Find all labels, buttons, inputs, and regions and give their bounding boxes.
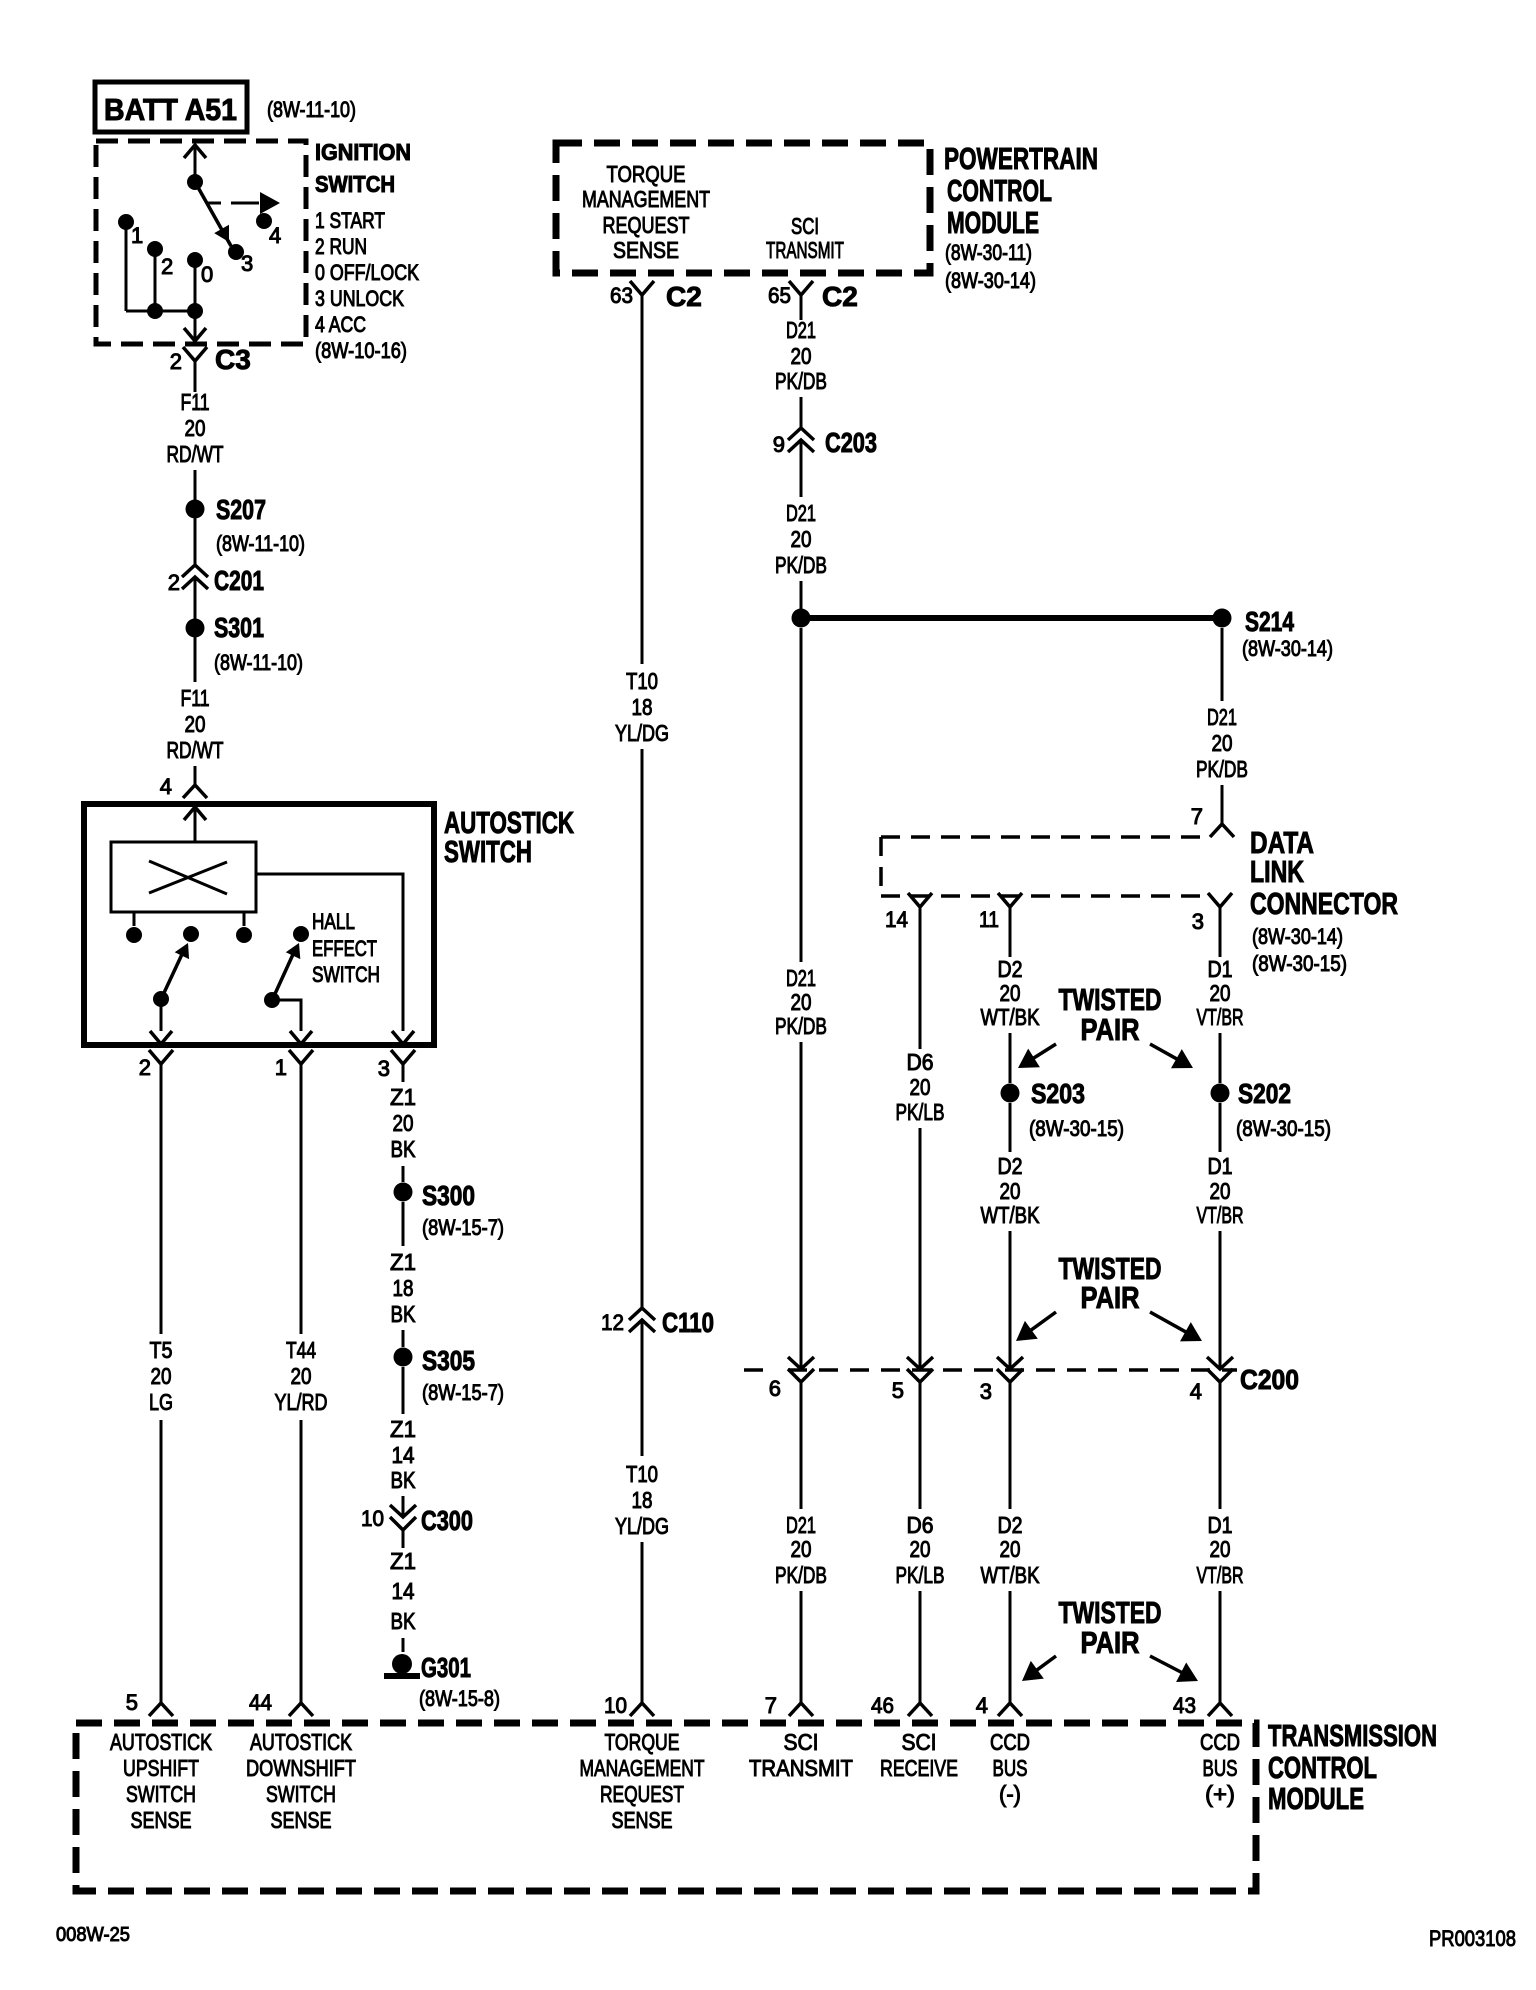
svg-text:20: 20 <box>1210 980 1231 1006</box>
connector pin 2 <box>149 1050 173 1064</box>
entry arrow from BATT <box>184 145 206 158</box>
wire from contact 2 <box>154 249 157 311</box>
svg-text:PK/DB: PK/DB <box>775 368 827 394</box>
svg-text:(8W-30-14): (8W-30-14) <box>945 268 1036 293</box>
svg-text:BK: BK <box>391 1301 417 1327</box>
data link connector box left <box>879 837 883 896</box>
svg-text:(8W-15-7): (8W-15-7) <box>422 1380 504 1405</box>
splice S203 <box>1001 1084 1020 1103</box>
svg-text:20: 20 <box>1210 1536 1231 1562</box>
wire <box>1009 1231 1012 1369</box>
svg-text:D1: D1 <box>1208 1153 1233 1179</box>
svg-text:C203: C203 <box>825 427 877 458</box>
svg-text:AUTOSTICK: AUTOSTICK <box>250 1729 353 1755</box>
svg-text:G301: G301 <box>421 1652 471 1683</box>
svg-text:20: 20 <box>1000 1178 1021 1204</box>
svg-text:D1: D1 <box>1208 1512 1233 1538</box>
twisted pair arrow left <box>1018 1044 1056 1068</box>
svg-text:0 OFF/LOCK: 0 OFF/LOCK <box>315 260 419 285</box>
wire <box>919 1128 922 1369</box>
svg-text:UPSHIFT: UPSHIFT <box>123 1755 199 1781</box>
wire to pin 1 <box>272 1000 301 1031</box>
splice S214 <box>1213 609 1232 628</box>
svg-text:Z1: Z1 <box>390 1548 416 1574</box>
wire T10 <box>641 317 644 664</box>
wire to pin 3 <box>256 874 403 1031</box>
svg-text:CONNECTOR: CONNECTOR <box>1250 886 1398 921</box>
exit arrow pin 2 <box>150 1031 172 1044</box>
svg-text:PAIR: PAIR <box>1081 1012 1140 1047</box>
svg-text:10: 10 <box>604 1693 627 1718</box>
X mark <box>149 861 227 894</box>
svg-text:SENSE: SENSE <box>271 1807 332 1833</box>
svg-text:(8W-15-8): (8W-15-8) <box>419 1686 500 1711</box>
svg-text:5: 5 <box>126 1690 138 1715</box>
svg-text:4: 4 <box>1190 1379 1202 1404</box>
wire <box>402 1367 405 1414</box>
wire <box>800 397 803 428</box>
svg-text:4: 4 <box>160 774 172 799</box>
svg-text:SENSE: SENSE <box>613 237 679 263</box>
svg-text:BUS: BUS <box>993 1755 1028 1781</box>
svg-text:RD/WT: RD/WT <box>167 737 224 763</box>
exit arrow to C3 <box>184 328 206 341</box>
svg-text:T10: T10 <box>626 1461 658 1487</box>
svg-text:7: 7 <box>765 1693 777 1718</box>
connector C2 pin 65 <box>789 281 813 295</box>
svg-text:PK/DB: PK/DB <box>1196 756 1248 782</box>
wire T44 <box>300 1064 303 1334</box>
svg-text:PK/DB: PK/DB <box>775 1562 827 1588</box>
svg-text:BUS: BUS <box>1203 1755 1238 1781</box>
svg-text:S301: S301 <box>214 612 264 643</box>
connector pin 1 <box>289 1050 313 1064</box>
svg-text:1: 1 <box>131 223 143 248</box>
svg-text:S202: S202 <box>1238 1078 1291 1109</box>
svg-text:12: 12 <box>601 1310 624 1335</box>
svg-text:3: 3 <box>980 1379 992 1404</box>
svg-text:0: 0 <box>201 262 213 287</box>
svg-text:D21: D21 <box>786 317 816 343</box>
data link connector box top <box>881 835 1206 839</box>
svg-text:MODULE: MODULE <box>947 205 1039 240</box>
exit arrow pin 1 <box>290 1031 312 1044</box>
svg-text:1: 1 <box>275 1055 287 1080</box>
connector pin 4 of autostick switch <box>183 785 207 798</box>
svg-text:Z1: Z1 <box>390 1084 416 1110</box>
svg-text:9: 9 <box>773 432 785 457</box>
svg-text:(+): (+) <box>1205 1781 1235 1807</box>
wire <box>1009 1591 1012 1703</box>
svg-text:SENSE: SENSE <box>131 1807 192 1833</box>
svg-text:14: 14 <box>392 1442 415 1468</box>
svg-text:18: 18 <box>393 1275 414 1301</box>
downshift switch pivot <box>264 992 280 1008</box>
contact 4 <box>256 213 272 229</box>
connector C110 pin 12 <box>629 1308 655 1356</box>
svg-text:20: 20 <box>291 1363 312 1389</box>
ignition switch box <box>96 141 306 344</box>
wire <box>160 1420 163 1703</box>
svg-text:D21: D21 <box>786 965 816 991</box>
svg-text:TRANSMISSION: TRANSMISSION <box>1268 1718 1437 1753</box>
svg-text:PR003108: PR003108 <box>1429 1926 1516 1951</box>
svg-text:2: 2 <box>161 254 173 279</box>
svg-text:S300: S300 <box>422 1180 475 1211</box>
connector C2 pin 63 <box>630 281 654 295</box>
splice S305 <box>394 1348 413 1367</box>
svg-text:REQUEST: REQUEST <box>603 212 690 238</box>
svg-text:SENSE: SENSE <box>612 1807 673 1833</box>
connector TCM pin 44 <box>289 1703 313 1716</box>
svg-text:11: 11 <box>979 907 999 932</box>
wire <box>194 470 197 565</box>
svg-text:3 UNLOCK: 3 UNLOCK <box>315 286 404 311</box>
transmission control module box <box>76 1723 1256 1891</box>
powertrain control module box <box>556 143 930 273</box>
svg-text:20: 20 <box>910 1536 931 1562</box>
svg-text:65: 65 <box>768 283 791 308</box>
svg-text:F11: F11 <box>181 389 210 415</box>
wire <box>800 581 803 618</box>
svg-text:S305: S305 <box>422 1345 475 1376</box>
svg-text:(8W-11-10): (8W-11-10) <box>214 650 303 675</box>
svg-text:POWERTRAIN: POWERTRAIN <box>944 141 1098 176</box>
connector C200 pin 6 <box>788 1357 814 1382</box>
connector TCM pin 46 <box>908 1703 932 1716</box>
bus wire <box>126 310 195 313</box>
wire to pin 2 <box>160 999 163 1031</box>
svg-text:(8W-30-14): (8W-30-14) <box>1242 636 1333 661</box>
svg-text:1 START: 1 START <box>315 208 385 233</box>
svg-text:D2: D2 <box>998 1512 1023 1538</box>
svg-text:2: 2 <box>139 1055 151 1080</box>
wire Z1 <box>402 1064 405 1082</box>
rotation arrow <box>208 202 221 205</box>
svg-text:6: 6 <box>769 1376 781 1401</box>
svg-text:(8W-10-16): (8W-10-16) <box>315 338 407 363</box>
svg-text:(8W-11-10): (8W-11-10) <box>267 97 356 122</box>
svg-text:TRANSMIT: TRANSMIT <box>766 237 844 263</box>
twisted pair arrow right <box>1150 1312 1202 1341</box>
svg-text:20: 20 <box>910 1074 931 1100</box>
svg-text:BATT A51: BATT A51 <box>104 92 237 127</box>
wire <box>800 1591 803 1703</box>
svg-text:2: 2 <box>168 570 180 595</box>
svg-text:SWITCH: SWITCH <box>312 962 380 987</box>
connector TCM pin 43 <box>1208 1703 1232 1716</box>
svg-text:3: 3 <box>378 1056 390 1081</box>
svg-text:D6: D6 <box>907 1512 934 1538</box>
svg-text:T5: T5 <box>150 1337 173 1363</box>
wire <box>1219 1382 1222 1509</box>
wire <box>919 1382 922 1509</box>
svg-text:PAIR: PAIR <box>1081 1280 1140 1315</box>
wire <box>641 1542 644 1703</box>
wire <box>800 1382 803 1509</box>
wire to S214 <box>801 615 1222 621</box>
svg-text:LINK: LINK <box>1250 854 1304 889</box>
svg-text:20: 20 <box>185 415 206 441</box>
wire <box>1219 1033 1222 1083</box>
svg-text:D21: D21 <box>786 500 816 526</box>
connector TCM pin 4 <box>998 1703 1022 1716</box>
wire <box>1219 1591 1222 1703</box>
svg-text:BK: BK <box>391 1136 417 1162</box>
svg-text:2 RUN: 2 RUN <box>315 234 367 259</box>
svg-text:D2: D2 <box>998 1153 1023 1179</box>
svg-text:7: 7 <box>1191 804 1203 829</box>
entry arrow pin 4 <box>184 807 206 820</box>
wire <box>1009 1103 1012 1152</box>
svg-text:YL/RD: YL/RD <box>275 1389 328 1415</box>
svg-text:D21: D21 <box>1207 704 1237 730</box>
splice S207 <box>186 500 205 519</box>
svg-text:2: 2 <box>170 349 182 374</box>
svg-text:10: 10 <box>361 1506 384 1531</box>
connector TCM pin 7 <box>789 1703 813 1716</box>
svg-text:14: 14 <box>392 1578 415 1604</box>
svg-text:CONTROL: CONTROL <box>1268 1750 1377 1785</box>
contact 3 <box>228 244 244 260</box>
svg-text:20: 20 <box>1212 730 1233 756</box>
connector C300 pin 10 <box>390 1505 416 1530</box>
svg-text:PK/LB: PK/LB <box>896 1099 945 1125</box>
twisted pair arrow left <box>1022 1656 1056 1681</box>
wire D21 <box>800 317 803 320</box>
svg-text:CCD: CCD <box>1200 1729 1240 1755</box>
svg-text:C200: C200 <box>1240 1364 1299 1395</box>
connector C203 pin 9 <box>788 428 814 476</box>
wire <box>800 476 803 497</box>
svg-text:20: 20 <box>791 526 812 552</box>
svg-text:SCI: SCI <box>784 1729 819 1755</box>
svg-text:(8W-30-15): (8W-30-15) <box>1029 1116 1124 1141</box>
svg-text:MODULE: MODULE <box>1268 1781 1364 1816</box>
connector TCM pin 5 <box>149 1703 173 1716</box>
svg-text:3: 3 <box>241 251 253 276</box>
connector C201 pin 2 <box>182 565 208 613</box>
svg-text:20: 20 <box>791 989 812 1015</box>
svg-text:20: 20 <box>791 1536 812 1562</box>
contact 2 <box>147 241 163 257</box>
svg-text:D2: D2 <box>998 956 1023 982</box>
data link connector box bottom <box>881 894 1206 898</box>
svg-text:DOWNSHIFT: DOWNSHIFT <box>246 1755 356 1781</box>
connector C200 line <box>744 1368 766 1372</box>
twisted pair arrow right <box>1150 1656 1198 1682</box>
svg-text:RD/WT: RD/WT <box>167 441 224 467</box>
twisted pair arrow right <box>1150 1044 1193 1068</box>
wire <box>641 1356 644 1456</box>
svg-text:C110: C110 <box>662 1307 714 1338</box>
svg-text:CONTROL: CONTROL <box>947 173 1052 208</box>
svg-text:S214: S214 <box>1245 606 1294 637</box>
wire <box>1221 785 1224 824</box>
wire <box>800 628 803 962</box>
svg-text:C2: C2 <box>666 281 702 312</box>
svg-text:63: 63 <box>610 283 633 308</box>
svg-text:C300: C300 <box>421 1505 473 1536</box>
svg-text:BK: BK <box>391 1467 417 1493</box>
switch body <box>111 842 256 912</box>
ground G301 <box>392 1654 412 1674</box>
svg-text:SWITCH: SWITCH <box>315 171 395 197</box>
svg-text:LG: LG <box>149 1389 173 1415</box>
svg-text:WT/BK: WT/BK <box>981 1004 1041 1030</box>
svg-text:20: 20 <box>393 1110 414 1136</box>
splice S300 <box>394 1183 413 1202</box>
svg-text:008W-25: 008W-25 <box>56 1924 130 1946</box>
svg-text:SCI: SCI <box>902 1729 937 1755</box>
connector DLC pin 3 <box>1208 893 1232 907</box>
hall effect contact <box>293 926 309 942</box>
svg-text:20: 20 <box>1000 980 1021 1006</box>
svg-text:MANAGEMENT: MANAGEMENT <box>582 186 710 212</box>
connector C200 pin 3 <box>997 1357 1023 1382</box>
splice junction <box>792 609 811 628</box>
svg-text:T10: T10 <box>626 668 658 694</box>
svg-text:IGNITION: IGNITION <box>315 139 411 165</box>
svg-text:18: 18 <box>632 1487 653 1513</box>
wire <box>194 607 197 682</box>
svg-text:CCD: CCD <box>990 1729 1030 1755</box>
wire <box>641 749 644 1308</box>
svg-text:VT/BR: VT/BR <box>1197 1004 1244 1030</box>
wire <box>402 1202 405 1246</box>
svg-text:20: 20 <box>185 711 206 737</box>
svg-text:PAIR: PAIR <box>1081 1625 1140 1660</box>
svg-text:18: 18 <box>632 694 653 720</box>
svg-text:WT/BK: WT/BK <box>981 1562 1041 1588</box>
svg-text:SWITCH: SWITCH <box>126 1781 196 1807</box>
exit arrow pin 3 <box>392 1031 414 1044</box>
connector DLC pin 11 <box>998 893 1022 907</box>
svg-text:SWITCH: SWITCH <box>266 1781 336 1807</box>
wire <box>300 1420 303 1703</box>
battery feed box BATT A51 <box>95 82 247 132</box>
svg-text:4: 4 <box>269 223 281 248</box>
junction <box>187 303 203 319</box>
svg-text:C3: C3 <box>215 344 251 375</box>
wire <box>194 147 197 182</box>
wire T5 <box>160 1064 163 1334</box>
svg-text:YL/DG: YL/DG <box>615 720 669 746</box>
svg-text:WT/BK: WT/BK <box>981 1202 1041 1228</box>
wire D1 <box>1219 907 1222 957</box>
wire to autostick <box>194 766 197 785</box>
wire from contact 1 <box>125 222 128 311</box>
svg-text:TRANSMIT: TRANSMIT <box>749 1755 853 1781</box>
svg-text:HALL: HALL <box>312 909 355 934</box>
svg-text:(8W-30-14): (8W-30-14) <box>1252 924 1343 949</box>
wire D2 <box>1009 907 1012 957</box>
switch pivot <box>187 174 203 190</box>
svg-text:43: 43 <box>1173 1693 1196 1718</box>
wire <box>1009 1382 1012 1509</box>
wire <box>402 1638 405 1652</box>
svg-text:5: 5 <box>892 1378 904 1403</box>
svg-text:SCI: SCI <box>791 213 819 239</box>
wire <box>1009 1033 1012 1083</box>
wire <box>1219 1103 1222 1152</box>
svg-text:14: 14 <box>885 907 908 932</box>
svg-text:TORQUE: TORQUE <box>607 161 686 187</box>
connector DLC pin 14 <box>908 893 932 907</box>
contact upshift <box>183 926 199 942</box>
wire <box>402 1330 405 1347</box>
switch blade <box>274 950 295 996</box>
splice S301 <box>186 619 205 638</box>
svg-text:46: 46 <box>871 1693 894 1718</box>
svg-text:AUTOSTICK: AUTOSTICK <box>110 1729 213 1755</box>
autostick switch box <box>84 804 434 1045</box>
svg-text:4: 4 <box>976 1693 988 1718</box>
svg-text:TORQUE: TORQUE <box>605 1729 680 1755</box>
switch blade <box>163 950 184 995</box>
connector C200 pin 4 <box>1207 1357 1233 1382</box>
svg-text:D1: D1 <box>1208 956 1233 982</box>
svg-text:RECEIVE: RECEIVE <box>880 1755 958 1781</box>
svg-text:T44: T44 <box>286 1337 316 1363</box>
contact <box>126 927 142 943</box>
svg-text:Z1: Z1 <box>390 1249 416 1275</box>
svg-text:20: 20 <box>151 1363 172 1389</box>
wire <box>919 1591 922 1703</box>
svg-text:C2: C2 <box>822 281 858 312</box>
svg-text:S207: S207 <box>216 494 266 525</box>
splice S202 <box>1211 1084 1230 1103</box>
svg-text:VT/BR: VT/BR <box>1197 1202 1244 1228</box>
svg-text:20: 20 <box>1000 1536 1021 1562</box>
svg-text:S203: S203 <box>1031 1078 1085 1109</box>
connector TCM pin 10 <box>630 1703 654 1716</box>
svg-text:Z1: Z1 <box>390 1416 416 1442</box>
svg-text:VT/BR: VT/BR <box>1197 1562 1244 1588</box>
stub <box>133 912 136 926</box>
wire D6 <box>919 907 922 1049</box>
contact 0 <box>187 252 203 268</box>
wire <box>402 1496 405 1517</box>
wire D21 <box>1221 628 1224 701</box>
switch blade to position 3 <box>195 182 231 246</box>
upshift switch pivot <box>153 991 169 1007</box>
svg-text:PK/LB: PK/LB <box>896 1562 945 1588</box>
wire to C3 <box>194 311 197 339</box>
svg-text:20: 20 <box>791 343 812 369</box>
svg-text:YL/DG: YL/DG <box>615 1513 669 1539</box>
svg-text:(-): (-) <box>999 1781 1021 1807</box>
svg-text:C201: C201 <box>214 565 264 596</box>
svg-text:(8W-30-15): (8W-30-15) <box>1236 1116 1331 1141</box>
svg-text:MANAGEMENT: MANAGEMENT <box>580 1755 705 1781</box>
contact <box>236 927 252 943</box>
svg-text:44: 44 <box>249 1690 272 1715</box>
twisted pair arrow left <box>1016 1312 1056 1341</box>
svg-text:PK/DB: PK/DB <box>775 1013 827 1039</box>
svg-text:REQUEST: REQUEST <box>600 1781 684 1807</box>
svg-text:(8W-30-15): (8W-30-15) <box>1252 951 1347 976</box>
svg-text:(8W-11-10): (8W-11-10) <box>216 531 305 556</box>
svg-text:(8W-15-7): (8W-15-7) <box>422 1215 504 1240</box>
svg-text:(8W-30-11): (8W-30-11) <box>945 240 1032 265</box>
svg-text:20: 20 <box>1210 1178 1231 1204</box>
svg-text:BK: BK <box>391 1608 417 1634</box>
junction <box>147 303 163 319</box>
svg-text:SWITCH: SWITCH <box>444 834 532 869</box>
stub <box>243 912 246 926</box>
connector C200 pin 5 <box>907 1357 933 1382</box>
